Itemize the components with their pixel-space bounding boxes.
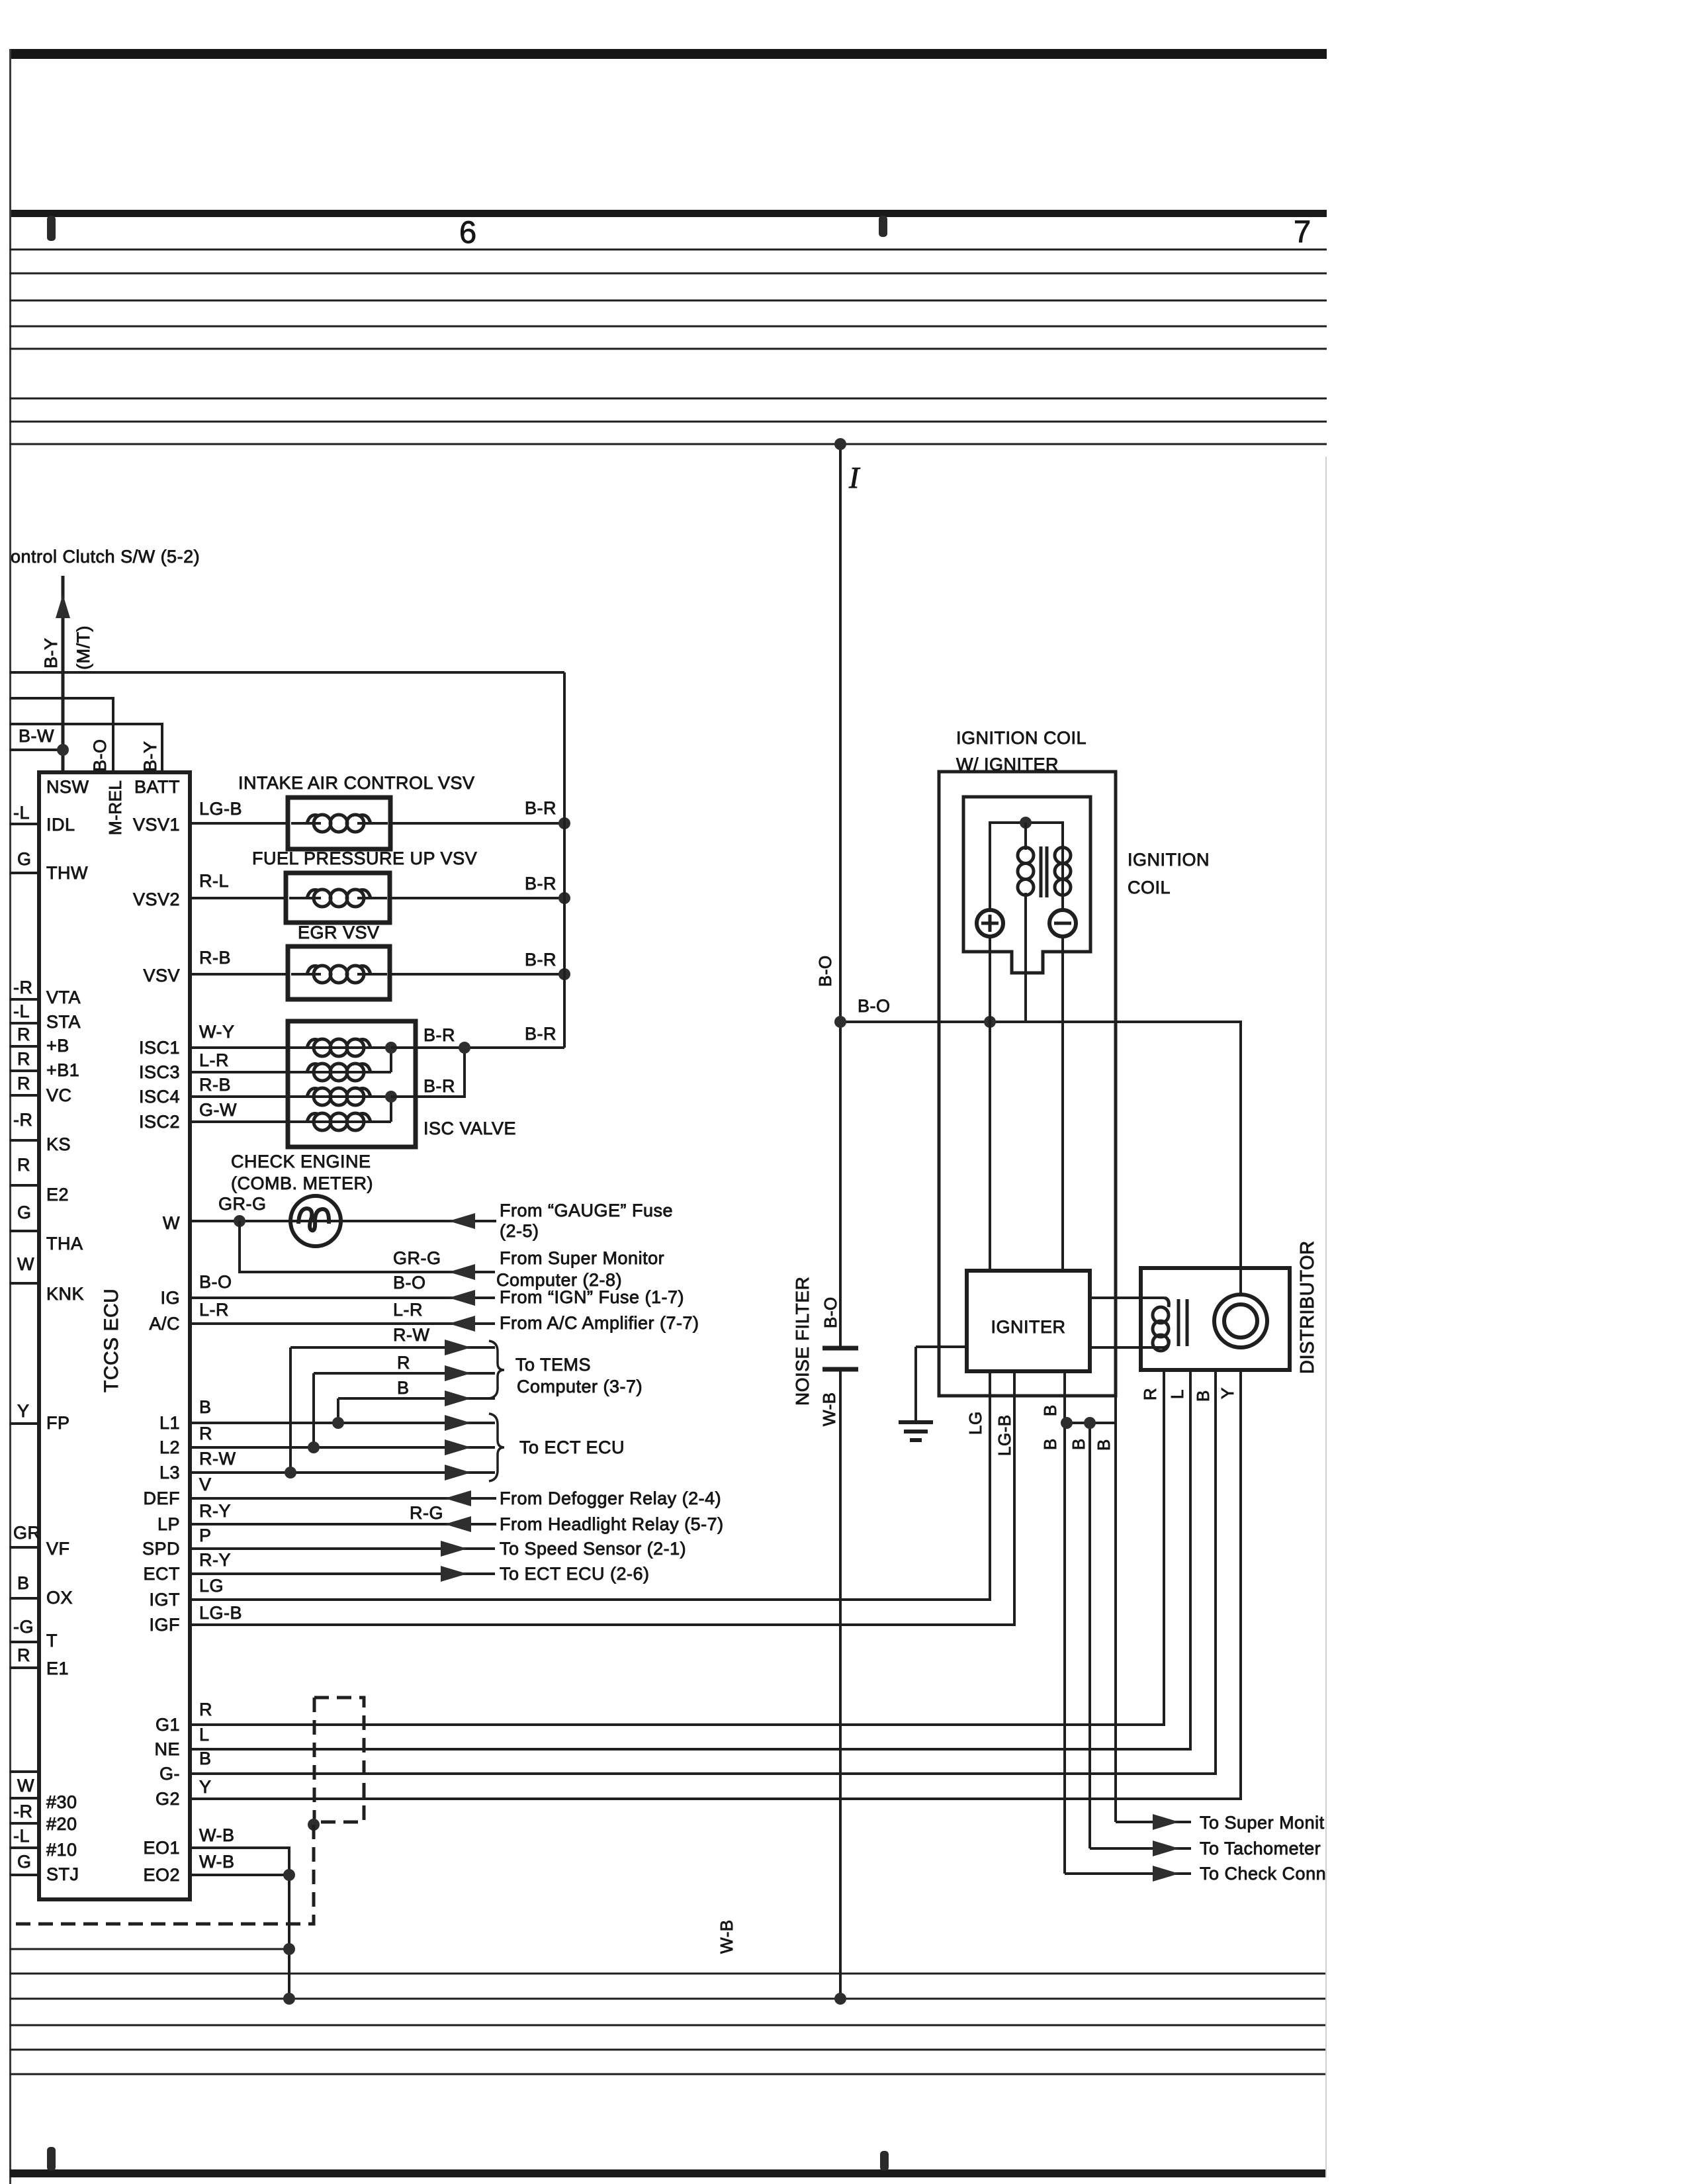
svg-text:VC: VC [46, 1085, 72, 1105]
svg-text:B-O: B-O [815, 955, 835, 987]
svg-text:EO1: EO1 [143, 1838, 180, 1858]
svg-text:VF: VF [46, 1539, 70, 1559]
svg-text:IG: IG [160, 1288, 180, 1308]
svg-text:From “IGN” Fuse (1-7): From “IGN” Fuse (1-7) [500, 1287, 684, 1307]
svg-text:STA: STA [46, 1012, 81, 1032]
svg-text:LG-B: LG-B [199, 799, 242, 819]
svg-text:NE: NE [154, 1739, 180, 1759]
svg-text:KS: KS [46, 1134, 71, 1154]
svg-text:CHECK ENGINE: CHECK ENGINE [231, 1152, 371, 1171]
svg-text:GR-G: GR-G [218, 1194, 267, 1214]
svg-text:BATT: BATT [134, 777, 180, 797]
svg-text:From “GAUGE” Fuse: From “GAUGE” Fuse [500, 1201, 673, 1220]
svg-text:GR: GR [13, 1523, 41, 1543]
svg-text:R-B: R-B [199, 948, 231, 968]
svg-text:To Speed Sensor (2-1): To Speed Sensor (2-1) [500, 1539, 686, 1559]
svg-text:NOISE FILTER: NOISE FILTER [792, 1277, 813, 1406]
svg-text:R-W: R-W [393, 1325, 429, 1345]
svg-text:B: B [199, 1749, 212, 1768]
svg-text:LG-B: LG-B [199, 1603, 242, 1623]
svg-text:OX: OX [46, 1588, 73, 1608]
svg-text:(COMB. METER): (COMB. METER) [231, 1173, 373, 1193]
svg-text:G: G [17, 1203, 32, 1222]
svg-text:B: B [199, 1397, 212, 1417]
svg-text:Computer (3-7): Computer (3-7) [517, 1377, 643, 1396]
svg-text:G: G [17, 1852, 32, 1872]
svg-text:SPD: SPD [142, 1539, 180, 1559]
svg-text:G-: G- [159, 1764, 180, 1784]
svg-text:R: R [17, 1073, 30, 1093]
svg-text:IGT: IGT [150, 1590, 181, 1610]
svg-text:R: R [17, 1645, 30, 1665]
svg-text:R: R [17, 1155, 30, 1175]
svg-text:6: 6 [459, 214, 477, 250]
svg-text:THA: THA [46, 1234, 83, 1253]
svg-text:B: B [1040, 1404, 1060, 1416]
svg-text:To Super Monit: To Super Monit [1200, 1813, 1325, 1833]
svg-text:COIL: COIL [1128, 878, 1171, 897]
svg-text:R: R [17, 1049, 30, 1069]
svg-text:From A/C Amplifier (7-7): From A/C Amplifier (7-7) [500, 1313, 699, 1333]
svg-text:LG: LG [199, 1576, 224, 1596]
svg-text:LP: LP [157, 1514, 180, 1534]
svg-text:IDL: IDL [46, 815, 75, 835]
svg-text:W-B: W-B [819, 1392, 839, 1426]
svg-text:Y: Y [1218, 1387, 1237, 1399]
svg-text:#30: #30 [46, 1792, 77, 1812]
svg-text:ontrol Clutch S/W (5-2): ontrol Clutch S/W (5-2) [11, 547, 200, 567]
svg-text:Y: Y [199, 1777, 212, 1797]
svg-text:R: R [17, 1024, 30, 1044]
svg-text:INTAKE AIR CONTROL VSV: INTAKE AIR CONTROL VSV [238, 773, 475, 793]
svg-text:A/C: A/C [149, 1314, 180, 1334]
svg-text:W-B: W-B [199, 1852, 235, 1872]
svg-text:ISC VALVE: ISC VALVE [423, 1118, 516, 1138]
svg-text:W: W [17, 1254, 34, 1274]
svg-text:KNK: KNK [46, 1284, 84, 1304]
svg-text:ISC1: ISC1 [139, 1038, 180, 1058]
svg-text:7: 7 [1294, 214, 1311, 249]
svg-text:B: B [1193, 1390, 1213, 1402]
svg-text:IGNITER: IGNITER [991, 1317, 1065, 1337]
svg-text:-R: -R [13, 978, 33, 997]
svg-text:-L: -L [13, 1826, 30, 1846]
svg-text:W: W [163, 1213, 180, 1233]
svg-text:G: G [17, 849, 32, 869]
svg-text:EO2: EO2 [143, 1865, 180, 1885]
svg-text:NSW: NSW [46, 777, 89, 797]
svg-text:#20: #20 [46, 1814, 77, 1834]
svg-text:M-REL: M-REL [105, 780, 125, 835]
svg-text:From Defogger Relay (2-4): From Defogger Relay (2-4) [500, 1488, 721, 1508]
svg-text:B-R: B-R [423, 1025, 455, 1045]
svg-text:ECT: ECT [144, 1564, 181, 1584]
svg-text:E1: E1 [46, 1659, 69, 1678]
svg-text:L-R: L-R [199, 1050, 229, 1070]
svg-text:L1: L1 [159, 1413, 180, 1433]
svg-text:W: W [17, 1776, 34, 1796]
svg-text:B: B [1040, 1438, 1060, 1450]
svg-text:L-R: L-R [199, 1300, 229, 1320]
svg-text:From Headlight Relay (5-7): From Headlight Relay (5-7) [500, 1514, 724, 1534]
svg-text:-G: -G [13, 1617, 34, 1637]
svg-text:THW: THW [46, 863, 88, 883]
svg-text:IGNITION COIL: IGNITION COIL [956, 728, 1087, 748]
svg-text:-R: -R [13, 1110, 33, 1130]
svg-text:W-B: W-B [717, 1919, 736, 1954]
svg-text:B-R: B-R [525, 798, 556, 818]
svg-text:From Super Monitor: From Super Monitor [500, 1248, 664, 1268]
svg-text:IGNITION: IGNITION [1128, 850, 1210, 870]
svg-text:W-B: W-B [199, 1825, 235, 1845]
svg-text:B: B [1069, 1438, 1088, 1450]
svg-text:To TEMS: To TEMS [515, 1355, 591, 1375]
svg-text:B-O: B-O [199, 1272, 232, 1292]
svg-text:B-O: B-O [858, 996, 891, 1016]
svg-text:R-B: R-B [199, 1075, 231, 1095]
svg-text:L2: L2 [159, 1437, 180, 1457]
svg-text:R-L: R-L [199, 871, 229, 891]
svg-text:R: R [1140, 1388, 1160, 1400]
svg-text:B-O: B-O [821, 1297, 840, 1328]
svg-text:VSV: VSV [143, 966, 180, 985]
svg-text:+B: +B [46, 1036, 69, 1056]
svg-text:R: R [199, 1700, 212, 1719]
svg-text:E2: E2 [46, 1185, 69, 1205]
svg-text:B-Y: B-Y [140, 741, 160, 772]
svg-text:B-R: B-R [525, 874, 556, 893]
svg-text:To Check Conne: To Check Conne [1200, 1864, 1337, 1884]
svg-text:ISC2: ISC2 [139, 1112, 180, 1132]
svg-text:LG: LG [965, 1411, 985, 1435]
svg-text:To ECT ECU (2-6): To ECT ECU (2-6) [500, 1564, 650, 1584]
svg-text:L3: L3 [159, 1463, 180, 1482]
svg-text:To ECT ECU: To ECT ECU [519, 1437, 625, 1457]
svg-text:FUEL PRESSURE UP VSV: FUEL PRESSURE UP VSV [252, 848, 477, 868]
svg-text:G-W: G-W [199, 1100, 237, 1120]
svg-text:B-R: B-R [525, 950, 556, 970]
svg-text:IGF: IGF [150, 1615, 181, 1635]
svg-text:G2: G2 [155, 1789, 180, 1809]
svg-text:-L: -L [13, 803, 30, 823]
svg-text:B: B [17, 1573, 30, 1593]
svg-text:B-W: B-W [19, 726, 54, 746]
svg-text:B-O: B-O [393, 1273, 426, 1293]
svg-text:B-R: B-R [525, 1024, 556, 1044]
svg-text:(M/T): (M/T) [73, 625, 93, 670]
svg-text:#10: #10 [46, 1840, 77, 1860]
svg-text:To Tachometer: To Tachometer [1200, 1839, 1321, 1858]
svg-text:I: I [848, 461, 861, 494]
svg-text:L: L [1167, 1389, 1187, 1399]
svg-text:B: B [1094, 1439, 1114, 1451]
svg-text:R-Y: R-Y [199, 1501, 231, 1521]
svg-text:FP: FP [46, 1413, 70, 1433]
svg-text:VSV1: VSV1 [133, 815, 180, 835]
svg-text:L-R: L-R [393, 1300, 423, 1320]
svg-text:L: L [199, 1725, 210, 1745]
svg-text:ISC3: ISC3 [139, 1062, 180, 1082]
svg-text:R: R [199, 1424, 212, 1443]
svg-text:+B1: +B1 [46, 1060, 79, 1080]
svg-text:R: R [397, 1353, 410, 1373]
svg-text:W/ IGNITER: W/ IGNITER [956, 754, 1059, 774]
svg-text:R-G: R-G [410, 1503, 443, 1523]
svg-text:-R: -R [13, 1801, 33, 1821]
svg-text:B-R: B-R [423, 1076, 455, 1096]
svg-text:R-Y: R-Y [199, 1550, 231, 1570]
svg-text:B: B [397, 1378, 410, 1398]
svg-text:GR-G: GR-G [393, 1248, 441, 1268]
svg-text:R-W: R-W [199, 1449, 236, 1469]
svg-text:-L: -L [13, 1001, 30, 1021]
svg-text:ISC4: ISC4 [139, 1087, 180, 1107]
svg-text:LG-B: LG-B [995, 1414, 1014, 1456]
svg-text:STJ: STJ [46, 1864, 79, 1884]
svg-text:T: T [46, 1631, 58, 1651]
svg-text:B-O: B-O [90, 739, 110, 772]
svg-text:G1: G1 [155, 1715, 180, 1735]
svg-text:VTA: VTA [46, 987, 81, 1007]
svg-text:EGR VSV: EGR VSV [298, 923, 380, 942]
svg-text:VSV2: VSV2 [133, 889, 180, 909]
svg-text:(2-5): (2-5) [500, 1221, 539, 1241]
svg-text:W-Y: W-Y [199, 1022, 235, 1042]
svg-text:TCCS ECU: TCCS ECU [101, 1289, 122, 1392]
svg-text:V: V [199, 1475, 212, 1494]
svg-text:Y: Y [17, 1401, 30, 1421]
svg-text:DISTRIBUTOR: DISTRIBUTOR [1297, 1240, 1318, 1374]
svg-text:P: P [199, 1525, 212, 1545]
svg-text:B-Y: B-Y [41, 637, 61, 668]
svg-text:DEF: DEF [144, 1488, 181, 1508]
